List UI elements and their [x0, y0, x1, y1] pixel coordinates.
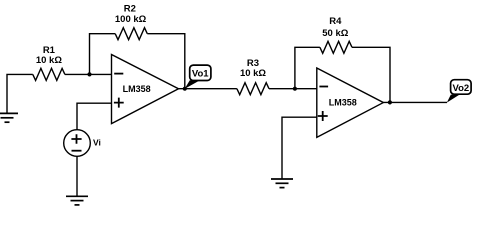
label R3	[240, 58, 266, 79]
wire (input node to R1, with ground stem)	[7, 74, 33, 113]
resistor R1	[33, 68, 65, 80]
svg-text:100 kΩ: 100 kΩ	[115, 14, 147, 25]
node Vo1 junction (U1 output / feedback / R3)	[183, 87, 187, 91]
voltage source Vi	[64, 130, 91, 157]
node A (junction R1 / feedback)	[87, 72, 91, 76]
node Vo2 callout	[447, 80, 471, 103]
wire (Vi plus terminal riser to U1 non-inverting input)	[77, 103, 111, 130]
svg-text:Vo2: Vo2	[452, 83, 469, 94]
svg-text:R4: R4	[329, 16, 342, 27]
wire (U1 output to R3)	[179, 88, 237, 90]
svg-text:50 kΩ: 50 kΩ	[322, 28, 348, 39]
node B (junction R3 / U2 feedback)	[293, 87, 297, 91]
svg-text:LM358: LM358	[123, 84, 151, 94]
wire (R1 to U1 inverting input)	[65, 73, 112, 75]
node Vo2 junction (U2 output / feedback)	[388, 100, 392, 104]
wire (feedback riser and top left segment)	[90, 34, 116, 75]
wire (U2 output to Vo2 label)	[383, 101, 447, 103]
resistor R2	[115, 28, 147, 40]
svg-text:Vo1: Vo1	[192, 68, 209, 79]
wire (Vi minus terminal to ground)	[76, 156, 78, 196]
wire (feedback riser and top left segment, stage 2)	[295, 47, 320, 88]
op-amp U2 (LM358)	[317, 68, 384, 137]
ground (below Vi)	[66, 196, 88, 205]
svg-text:10 kΩ: 10 kΩ	[36, 55, 62, 66]
label R4	[322, 16, 348, 39]
svg-text:Vi: Vi	[93, 138, 101, 148]
op-amp U1 (LM358)	[112, 55, 179, 124]
ground (below U2 non-inverting input)	[271, 179, 293, 188]
ground (input, top-left)	[0, 113, 18, 122]
node Vo1 callout	[185, 65, 211, 89]
wire (R3 to U2 inverting input)	[269, 88, 317, 90]
svg-text:10 kΩ: 10 kΩ	[240, 68, 266, 79]
wire (feedback top right segment and drop to U1 output)	[147, 34, 185, 89]
label R1	[36, 45, 62, 66]
resistor R3	[237, 83, 269, 95]
svg-text:LM358: LM358	[329, 98, 357, 108]
wire (feedback top right segment and drop to U2 output)	[352, 47, 390, 102]
resistor R4	[320, 41, 352, 53]
label R2	[115, 4, 147, 25]
wire (U2 non-inverting input to ground branch)	[282, 117, 317, 179]
